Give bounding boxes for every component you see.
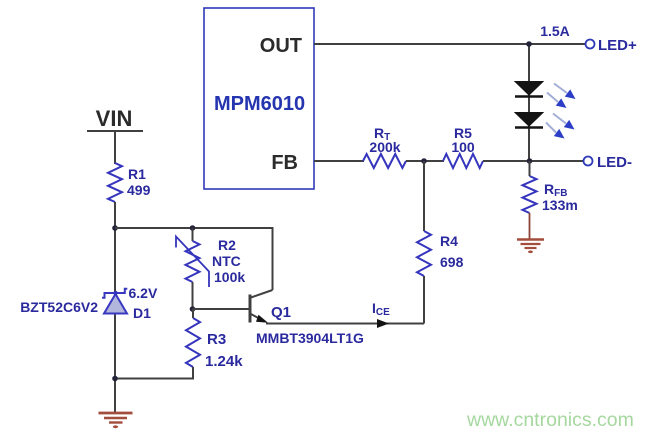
svg-text:NTC: NTC bbox=[212, 253, 241, 269]
svg-text:MMBT3904LT1G: MMBT3904LT1G bbox=[256, 330, 364, 346]
svg-text:100k: 100k bbox=[214, 269, 245, 285]
wire R2 top lead bbox=[192, 228, 194, 241]
wire LED- to RFB bbox=[529, 161, 531, 176]
resistor R1 bbox=[108, 163, 122, 202]
node LED- terminal bbox=[584, 157, 593, 166]
svg-text:BZT52C6V2: BZT52C6V2 bbox=[20, 299, 98, 315]
svg-text:MPM6010: MPM6010 bbox=[214, 93, 305, 115]
svg-text:R4: R4 bbox=[440, 233, 458, 249]
node junction base bbox=[190, 306, 196, 312]
wire RFB to ground bbox=[529, 213, 531, 239]
wire LED string vertical bbox=[528, 44, 530, 161]
wire OUT to LED+ bbox=[314, 43, 586, 45]
svg-text:100: 100 bbox=[451, 139, 475, 155]
svg-text:ICE: ICE bbox=[372, 300, 390, 318]
wire R3 bottom to left rail bbox=[115, 367, 193, 379]
svg-text:1.5A: 1.5A bbox=[540, 23, 570, 39]
LED D2 emission arrows bbox=[547, 84, 576, 109]
svg-text:LED+: LED+ bbox=[598, 37, 637, 54]
svg-text:FB: FB bbox=[271, 152, 298, 174]
node junction at OUT/LED string bbox=[526, 41, 532, 47]
resistor R5 bbox=[443, 154, 483, 168]
svg-text:VIN: VIN bbox=[96, 106, 133, 131]
svg-text:www.cntronics.com: www.cntronics.com bbox=[466, 409, 634, 431]
VIN terminal bar bbox=[87, 130, 143, 132]
wire R4 bottom lead bbox=[423, 276, 425, 324]
node junction FB/R4 bbox=[421, 158, 427, 164]
resistor R3 bbox=[186, 318, 200, 367]
wire RT to R5 bbox=[406, 160, 444, 162]
IC MPM6010 body bbox=[204, 8, 314, 189]
svg-text:OUT: OUT bbox=[260, 35, 302, 57]
ICE current arrow bbox=[377, 319, 389, 328]
wire VIN to R1 bbox=[114, 131, 116, 164]
wire R4 top lead bbox=[423, 161, 425, 231]
wire R2 bottom lead bbox=[192, 282, 194, 309]
wire emitter to R4 (ICE) bbox=[266, 323, 424, 325]
svg-text:R1: R1 bbox=[128, 166, 146, 182]
transistor Q1 bbox=[250, 290, 273, 323]
wire top branch to collector bbox=[115, 228, 273, 290]
resistor RT bbox=[363, 154, 406, 168]
LED D2 bbox=[515, 82, 543, 97]
resistor RFB bbox=[523, 176, 537, 213]
svg-text:LED-: LED- bbox=[597, 154, 632, 171]
svg-text:6.2V: 6.2V bbox=[129, 285, 158, 301]
ground (RFB) bbox=[517, 240, 544, 254]
svg-text:698: 698 bbox=[440, 254, 464, 270]
svg-text:200k: 200k bbox=[369, 139, 400, 155]
wire base bbox=[193, 308, 250, 310]
svg-text:D1: D1 bbox=[133, 305, 151, 321]
resistor R2 NTC bbox=[186, 241, 200, 282]
node junction R2 top bbox=[190, 225, 196, 231]
node junction LED-/RFB bbox=[527, 158, 533, 164]
NTC strike line bbox=[176, 237, 209, 288]
LED D3 bbox=[515, 113, 543, 128]
node junction ground rail bbox=[112, 376, 118, 382]
zener diode D1 bbox=[102, 289, 127, 314]
node junction R1/branch bbox=[112, 225, 118, 231]
svg-text:Q1: Q1 bbox=[271, 304, 291, 321]
ground (main) bbox=[99, 413, 133, 428]
svg-text:1.24k: 1.24k bbox=[205, 353, 243, 370]
LED D3 emission arrows bbox=[546, 114, 575, 139]
svg-text:133m: 133m bbox=[542, 197, 578, 213]
node LED+ terminal bbox=[586, 40, 595, 49]
resistor R4 bbox=[417, 231, 431, 276]
Q1 emitter arrow bbox=[256, 315, 268, 323]
wire FB to RT bbox=[314, 160, 364, 162]
svg-text:R2: R2 bbox=[218, 237, 236, 253]
svg-text:499: 499 bbox=[127, 182, 151, 198]
wire R1 down to ground node bbox=[114, 202, 116, 412]
wire base node to R3 bbox=[192, 309, 194, 318]
wire R5 to LED- bbox=[483, 160, 584, 162]
svg-text:R3: R3 bbox=[207, 331, 226, 348]
